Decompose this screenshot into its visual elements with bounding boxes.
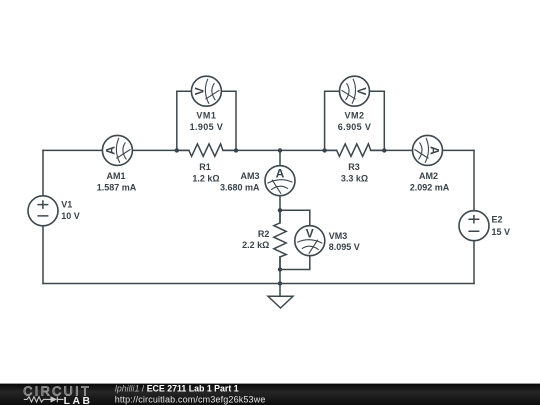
voltage source E2 xyxy=(459,211,489,241)
svg-text:R3: R3 xyxy=(348,162,360,172)
label R1 xyxy=(192,162,219,183)
wire VM1 loop xyxy=(177,91,236,150)
svg-text:AM1: AM1 xyxy=(106,171,125,181)
svg-text:2.092 mA: 2.092 mA xyxy=(410,182,450,192)
resistor R1 xyxy=(177,144,236,156)
svg-text:V: V xyxy=(306,227,314,241)
svg-text:R1: R1 xyxy=(199,162,211,172)
svg-text:V: V xyxy=(192,87,206,95)
label AM3 xyxy=(220,171,260,192)
svg-text:R2: R2 xyxy=(258,229,270,239)
voltage source V1 xyxy=(28,196,58,226)
svg-text:VM3: VM3 xyxy=(329,231,348,241)
voltmeter VM2 xyxy=(340,76,370,106)
svg-text:lphilli1 / ECE 2711 Lab 1 Part: lphilli1 / ECE 2711 Lab 1 Part 1 xyxy=(115,383,239,393)
svg-text:1.587 mA: 1.587 mA xyxy=(97,182,137,192)
wire top rail xyxy=(43,149,474,151)
node R3 right xyxy=(382,148,386,152)
svg-text:LAB: LAB xyxy=(64,396,93,405)
svg-text:http://circuitlab.com/cm3efg26: http://circuitlab.com/cm3efg26k53we xyxy=(115,395,266,405)
label AM2 xyxy=(410,171,450,192)
label VM1 xyxy=(190,111,223,133)
label VM2 xyxy=(338,111,371,133)
ammeter AM3 xyxy=(265,166,295,196)
wire middle branch xyxy=(279,150,281,283)
svg-text:VM1: VM1 xyxy=(196,111,216,121)
svg-text:2.2 kΩ: 2.2 kΩ xyxy=(242,240,269,250)
resistor R3 xyxy=(325,144,385,156)
label R3 xyxy=(341,162,368,183)
svg-text:8.095 V: 8.095 V xyxy=(329,242,360,252)
wire right rail xyxy=(473,150,475,283)
voltmeter VM1 xyxy=(191,76,221,106)
resistor R2 xyxy=(274,210,286,269)
node R2 top xyxy=(278,208,282,212)
ground xyxy=(268,284,293,309)
wire left rail xyxy=(42,150,44,283)
voltmeter VM3 xyxy=(295,226,325,256)
ammeter AM1 xyxy=(102,135,132,165)
node R1 left xyxy=(175,148,179,152)
svg-text:3.680 mA: 3.680 mA xyxy=(220,182,260,192)
wire VM3 loop xyxy=(280,210,310,269)
wire bottom rail xyxy=(43,283,474,285)
node R1 right xyxy=(234,148,238,152)
logo diode triangle xyxy=(51,396,58,402)
svg-text:AM3: AM3 xyxy=(240,171,259,181)
label R2 xyxy=(242,229,269,250)
svg-text:A: A xyxy=(103,146,117,155)
svg-text:15 V: 15 V xyxy=(492,227,511,237)
svg-text:1.905 V: 1.905 V xyxy=(190,122,223,132)
svg-text:A: A xyxy=(276,167,285,181)
node ground xyxy=(278,281,282,285)
svg-text:V1: V1 xyxy=(61,200,72,210)
svg-text:VM2: VM2 xyxy=(344,111,364,121)
label E2 xyxy=(492,215,511,237)
label V1 xyxy=(61,200,80,221)
wire VM2 loop xyxy=(325,91,385,150)
svg-text:1.2 kΩ: 1.2 kΩ xyxy=(192,173,219,183)
svg-text:3.3 kΩ: 3.3 kΩ xyxy=(341,173,368,183)
svg-text:6.905 V: 6.905 V xyxy=(338,122,371,132)
svg-text:A: A xyxy=(428,146,442,155)
label VM3 xyxy=(329,231,360,252)
node R3 left xyxy=(322,148,326,152)
logo squiggle wire xyxy=(24,397,64,403)
footer bar xyxy=(0,384,540,405)
svg-text:10 V: 10 V xyxy=(61,211,80,221)
label AM1 xyxy=(97,171,137,192)
svg-text:E2: E2 xyxy=(492,215,503,225)
ammeter AM2 xyxy=(413,135,443,165)
svg-text:V: V xyxy=(355,87,369,95)
node mid top xyxy=(278,148,282,152)
svg-text:AM2: AM2 xyxy=(419,171,438,181)
node R2 bottom xyxy=(278,267,282,271)
